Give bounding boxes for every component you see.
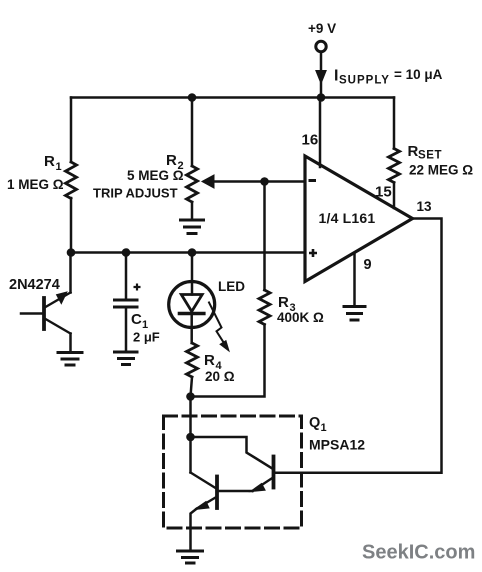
label C1 plus	[134, 284, 141, 291]
node dot rail/supply	[317, 93, 326, 102]
svg-text:2 μF: 2 μF	[133, 330, 160, 345]
svg-text:5 MEG Ω: 5 MEG Ω	[127, 168, 184, 183]
wire supply to rail	[320, 83, 323, 98]
wire left vertical upper (rail to R1)	[70, 98, 73, 163]
wire pin13 output	[302, 219, 442, 473]
wire R3 bottom corner	[191, 325, 265, 397]
svg-text:+9 V: +9 V	[308, 21, 336, 36]
svg-text:C: C	[131, 311, 142, 328]
svg-text:LED: LED	[218, 279, 245, 294]
resistor R3	[259, 290, 270, 325]
svg-text:1/4 L161: 1/4 L161	[319, 210, 376, 226]
wire LED bottom	[190, 314, 193, 344]
emitter diagonal with arrow	[46, 293, 71, 308]
svg-text:R: R	[166, 152, 177, 169]
svg-text:SET: SET	[418, 150, 442, 162]
svg-text:R: R	[44, 153, 55, 170]
ground Q1	[178, 551, 203, 563]
transistor T1 bar	[215, 477, 219, 509]
label minus input	[309, 179, 317, 182]
LED diode triangle	[181, 295, 202, 312]
potentiometer R2	[187, 166, 198, 202]
svg-text:400K Ω: 400K Ω	[277, 310, 324, 325]
LED emission arrow	[209, 303, 223, 342]
base lead	[21, 312, 44, 315]
svg-text:SeekIC.com: SeekIC.com	[362, 542, 475, 564]
wire R2 top	[191, 98, 194, 167]
T2 emitter diagonal with arrow	[253, 479, 272, 492]
LED	[169, 253, 229, 351]
+9 V terminal circle	[316, 41, 326, 51]
T2 collector wire out	[276, 471, 302, 474]
label plus input	[309, 249, 317, 257]
svg-text:R: R	[408, 143, 419, 160]
wire mid rail	[71, 251, 305, 254]
svg-text:MPSA12: MPSA12	[309, 437, 365, 453]
collector diagonal	[46, 319, 71, 334]
wire R1 to mid rail	[70, 198, 73, 253]
resistor R4	[187, 343, 198, 377]
ground pin9	[344, 307, 365, 321]
wire C1 bottom	[125, 309, 128, 352]
LED circle	[169, 282, 215, 328]
svg-text:TRIP ADJUST: TRIP ADJUST	[93, 186, 178, 201]
wire C1 top	[125, 253, 128, 299]
wire RSET to pin15	[393, 183, 396, 209]
C1 top plate	[115, 299, 138, 302]
capacitor C1	[115, 253, 138, 352]
wire R2 bottom	[191, 202, 194, 219]
wire into darlington box	[189, 397, 192, 438]
darlington wiring: base to T2	[191, 437, 272, 468]
node dot mid rail LED	[188, 248, 197, 257]
wire LED top	[191, 253, 194, 295]
wire T1 emitter down	[191, 509, 197, 550]
wire T1 collector up to dot	[189, 437, 192, 473]
wire pin16	[319, 98, 322, 168]
node dot R4/R3 junction	[186, 392, 195, 401]
svg-text:SUPPLY: SUPPLY	[339, 75, 390, 87]
wire top rail	[71, 96, 394, 99]
svg-text:9: 9	[364, 257, 372, 273]
emitter wire up	[69, 253, 72, 293]
ground 2N4274	[58, 353, 82, 366]
wire T2 emitter to T1 base	[220, 490, 253, 493]
svg-text:I: I	[334, 68, 338, 85]
op-amp U1 1/4 L161	[305, 156, 413, 282]
dashed box Q1	[164, 416, 302, 528]
resistor RSET	[389, 149, 400, 183]
svg-text:1: 1	[321, 422, 327, 434]
node dot wiper/R3	[260, 177, 269, 186]
LED cathode bar	[180, 312, 204, 316]
resistor R1	[66, 162, 77, 198]
ground C1	[115, 352, 138, 365]
node dot rail/R2	[188, 93, 197, 102]
wire R3 vertical	[263, 182, 266, 291]
wire pin9	[353, 255, 356, 306]
svg-text:13: 13	[417, 199, 433, 214]
svg-text:R: R	[278, 294, 289, 311]
node dot mid rail C1	[122, 248, 131, 257]
svg-text:1 MEG Ω: 1 MEG Ω	[7, 177, 64, 192]
svg-text:22 MEG Ω: 22 MEG Ω	[409, 163, 473, 178]
wire R4 bottom	[191, 377, 193, 397]
wire supply shaft	[320, 52, 323, 71]
collector wire down	[69, 334, 72, 352]
transistor 2N4274	[21, 253, 71, 352]
C1 bottom plate	[115, 306, 138, 309]
svg-text:20 Ω: 20 Ω	[205, 369, 235, 384]
svg-text:Q: Q	[309, 415, 320, 431]
supply arrow	[316, 71, 326, 84]
wire RSET corner	[393, 98, 396, 149]
transistor T2 bar	[272, 457, 276, 488]
svg-text:R: R	[204, 352, 215, 369]
svg-text:2N4274: 2N4274	[9, 277, 60, 293]
R2 wiper arrow	[214, 180, 306, 183]
svg-text:16: 16	[302, 132, 319, 149]
svg-text:15: 15	[375, 184, 392, 201]
node dot darlington base	[186, 433, 195, 442]
svg-text:1: 1	[56, 161, 62, 173]
ground R2	[181, 220, 204, 234]
T1 collector diagonal	[191, 473, 216, 489]
svg-text:= 10 μA: = 10 μA	[394, 67, 443, 82]
base bar	[42, 298, 46, 329]
node dot mid rail left	[67, 248, 76, 257]
T1 emitter diagonal with arrow	[197, 498, 216, 509]
